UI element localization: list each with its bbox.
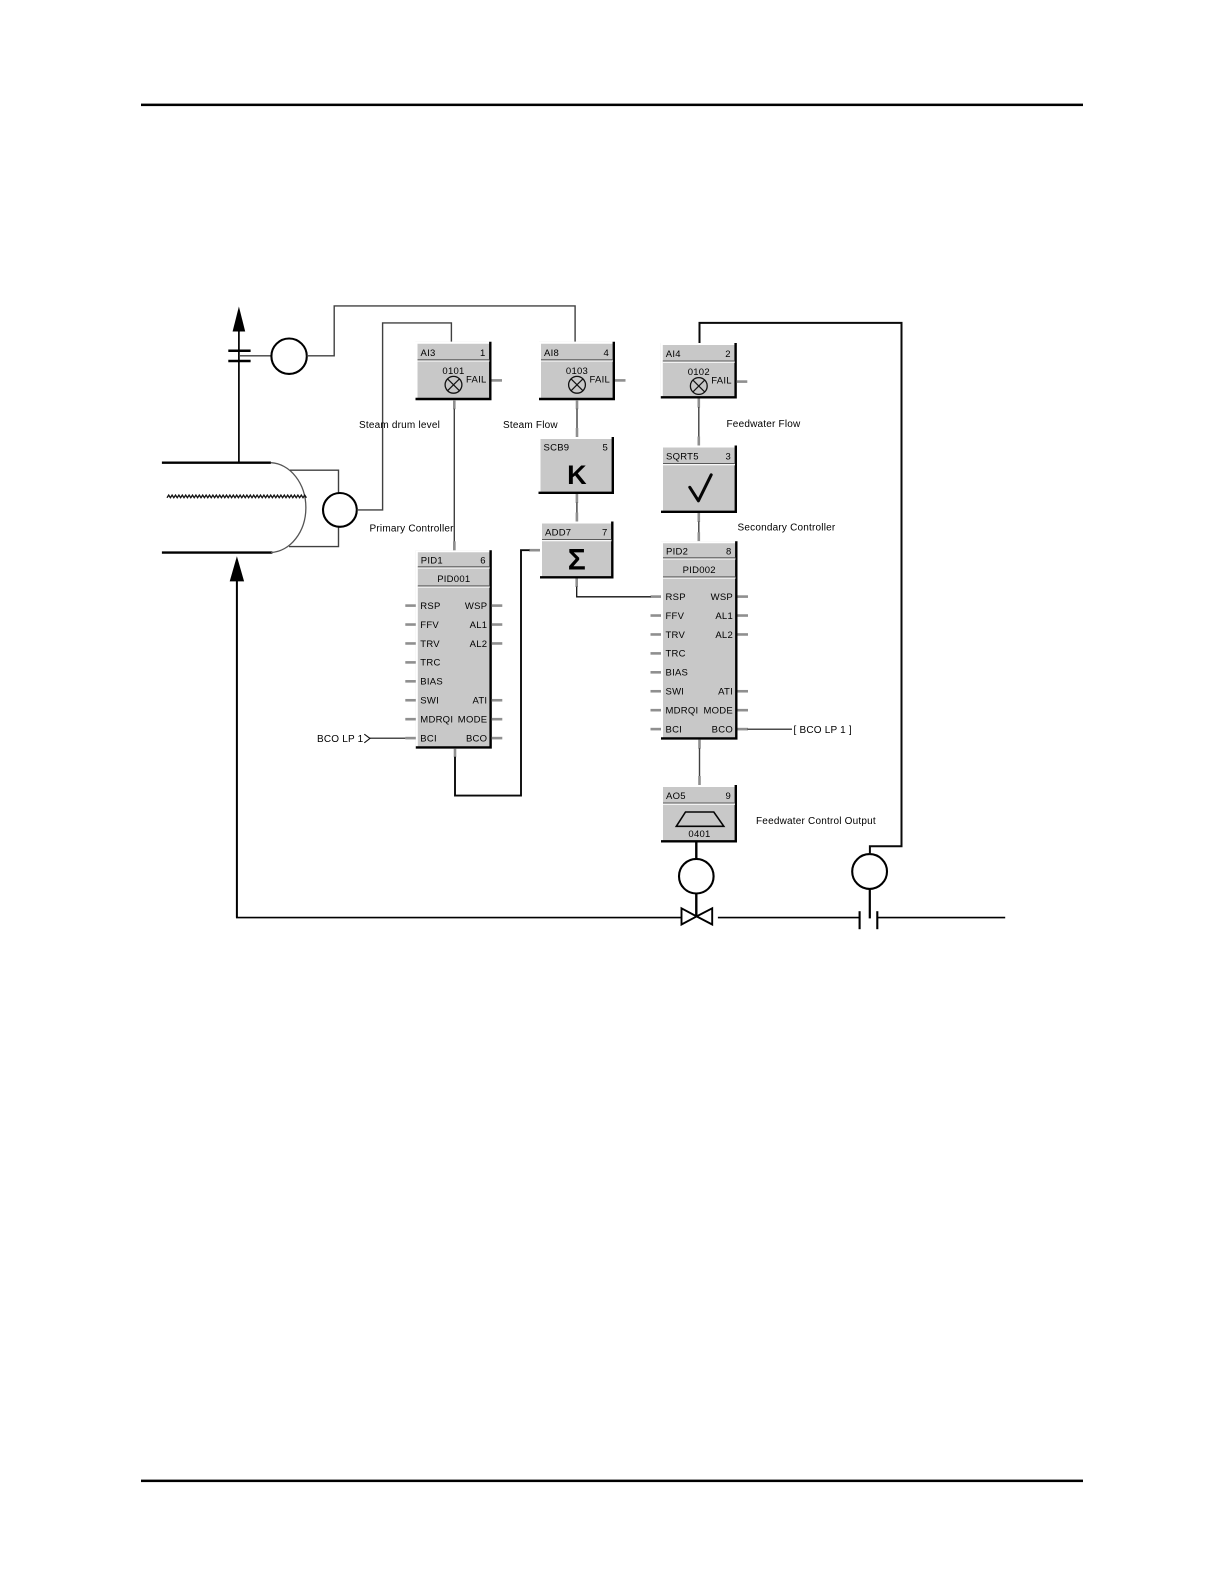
wire PID2 to AO5 xyxy=(698,740,701,785)
svg-text:AO5: AO5 xyxy=(666,791,686,802)
footer rule xyxy=(141,1480,1083,1483)
steam vent arrow xyxy=(233,307,246,332)
wire PID2 BCO to tag xyxy=(748,728,793,730)
AO5 trapezoid symbol xyxy=(676,812,724,826)
ADD7 left input stub xyxy=(529,549,540,552)
block AI4 xyxy=(661,343,737,399)
svg-text:6: 6 xyxy=(480,555,486,566)
svg-text:BIAS: BIAS xyxy=(420,677,443,688)
svg-text:9: 9 xyxy=(725,791,731,802)
chevron xyxy=(364,734,370,743)
svg-text:BCO LP 1: BCO LP 1 xyxy=(317,734,364,745)
svg-text:AI8: AI8 xyxy=(544,348,559,359)
tap line orifice to steam-flow transmitter xyxy=(239,355,271,357)
svg-text:ATI: ATI xyxy=(718,687,733,698)
block PID2 xyxy=(661,541,738,739)
block ADD7 xyxy=(540,522,614,579)
wire SQRT5 to PID2 xyxy=(697,513,700,541)
svg-text:ATI: ATI xyxy=(472,696,487,707)
svg-text:Steam Flow: Steam Flow xyxy=(503,420,558,431)
PID1 top stub xyxy=(453,542,456,551)
svg-text:0101: 0101 xyxy=(442,366,464,377)
feedwater arrow into drum xyxy=(230,556,244,581)
svg-text:RSP: RSP xyxy=(666,592,686,603)
svg-text:SCB9: SCB9 xyxy=(544,443,570,454)
PID1 bottom output stub xyxy=(454,749,457,758)
svg-text:2: 2 xyxy=(725,349,731,360)
wire AI4 to SQRT5 xyxy=(697,399,700,446)
svg-text:7: 7 xyxy=(602,528,608,539)
wire BCO LP 1 to PID1 BCI xyxy=(370,737,405,739)
svg-text:BCO: BCO xyxy=(466,733,487,744)
svg-text:AL1: AL1 xyxy=(470,620,488,631)
block PID1 xyxy=(416,550,492,748)
svg-text:BCI: BCI xyxy=(666,724,683,735)
svg-text:FAIL: FAIL xyxy=(589,375,610,386)
block SCB9 xyxy=(539,437,615,494)
svg-text:Primary Controller: Primary Controller xyxy=(370,523,455,534)
wire AI8 to SCB9 xyxy=(576,400,579,437)
svg-text:PID2: PID2 xyxy=(666,546,688,557)
feedwater riser to drum xyxy=(236,581,238,918)
ADD7 bottom output stub xyxy=(575,579,578,588)
steam line (vertical riser from drum top) xyxy=(238,330,240,463)
svg-text:RSP: RSP xyxy=(420,601,440,612)
svg-text:3: 3 xyxy=(725,452,731,463)
svg-text:MDRQI: MDRQI xyxy=(666,705,699,716)
svg-text:0401: 0401 xyxy=(688,829,710,840)
block AO5 xyxy=(661,785,737,843)
svg-text:FFV: FFV xyxy=(420,620,439,631)
svg-text:FAIL: FAIL xyxy=(711,376,732,387)
svg-text:AL2: AL2 xyxy=(715,630,733,641)
svg-text:FFV: FFV xyxy=(666,611,685,622)
svg-text:WSP: WSP xyxy=(711,592,733,603)
wire SCB9 to ADD7 xyxy=(576,494,579,522)
svg-text:WSP: WSP xyxy=(465,601,487,612)
svg-text:AL1: AL1 xyxy=(715,611,733,622)
svg-text:Feedwater Control Output: Feedwater Control Output xyxy=(756,816,876,827)
block AI8 xyxy=(539,342,615,400)
svg-text:SQRT5: SQRT5 xyxy=(666,452,699,463)
feedback wire transmitter to AI4 xyxy=(700,323,902,855)
svg-text:AI3: AI3 xyxy=(421,348,436,359)
control valve body xyxy=(682,908,713,924)
svg-text:Secondary Controller: Secondary Controller xyxy=(738,523,836,534)
wire AI3 to PID1 xyxy=(453,400,456,550)
svg-text:MODE: MODE xyxy=(458,714,488,725)
svg-text:PID002: PID002 xyxy=(683,565,716,576)
feedwater pipe xyxy=(236,917,1005,919)
svg-text:BCO: BCO xyxy=(712,724,733,735)
svg-text:1: 1 xyxy=(480,348,486,359)
svg-text:0102: 0102 xyxy=(688,367,710,378)
svg-text:MDRQI: MDRQI xyxy=(420,714,453,725)
wire PID1 out to ADD7 input xyxy=(455,550,530,795)
orifice plate (steam flow element) xyxy=(228,351,250,361)
wire steam-flow transmitter to AI8 xyxy=(307,306,575,356)
svg-text:AI4: AI4 xyxy=(666,349,681,360)
block AI3 xyxy=(416,342,492,400)
square root check symbol xyxy=(690,475,711,501)
valve actuator circle xyxy=(679,859,714,894)
svg-text:[ BCO LP 1 ]: [ BCO LP 1 ] xyxy=(794,725,852,736)
block SQRT5 xyxy=(661,446,737,514)
svg-text:MODE: MODE xyxy=(704,705,734,716)
svg-text:Steam drum level: Steam drum level xyxy=(359,420,440,431)
drum level transmitter circle xyxy=(323,493,357,527)
svg-text:8: 8 xyxy=(726,546,732,557)
steam flow transmitter circle xyxy=(271,339,306,374)
svg-text:Σ: Σ xyxy=(568,543,586,576)
svg-text:5: 5 xyxy=(602,443,608,454)
feedwater flow transmitter circle xyxy=(852,854,887,889)
steam drum vessel xyxy=(162,463,306,553)
feedwater flow transmitter tap xyxy=(869,889,871,919)
svg-text:TRC: TRC xyxy=(420,658,440,669)
svg-text:BCI: BCI xyxy=(420,733,437,744)
pipe orifice plates (feedwater flow element) xyxy=(860,911,878,929)
svg-text:SWI: SWI xyxy=(666,687,685,698)
svg-text:BIAS: BIAS xyxy=(666,668,689,679)
svg-text:AL2: AL2 xyxy=(470,639,488,650)
svg-text:4: 4 xyxy=(603,348,609,359)
wire ADD7 out to PID2 RSP xyxy=(577,587,651,597)
level tap lines xyxy=(289,470,339,546)
svg-text:TRV: TRV xyxy=(666,630,686,641)
svg-text:PID001: PID001 xyxy=(437,574,470,585)
actuator stem xyxy=(695,894,697,917)
wire level transmitter to AI3 xyxy=(357,323,452,510)
svg-text:K: K xyxy=(567,460,587,490)
header rule xyxy=(141,104,1083,107)
svg-text:SWI: SWI xyxy=(420,696,439,707)
svg-text:TRV: TRV xyxy=(420,639,440,650)
svg-text:FAIL: FAIL xyxy=(466,375,487,386)
svg-text:PID1: PID1 xyxy=(421,555,443,566)
drum water level xyxy=(167,495,306,498)
svg-text:ADD7: ADD7 xyxy=(545,528,571,539)
svg-text:0103: 0103 xyxy=(566,366,588,377)
svg-text:TRC: TRC xyxy=(666,649,686,660)
svg-text:Feedwater Flow: Feedwater Flow xyxy=(727,419,802,430)
wire AO5 to valve actuator xyxy=(695,843,697,860)
